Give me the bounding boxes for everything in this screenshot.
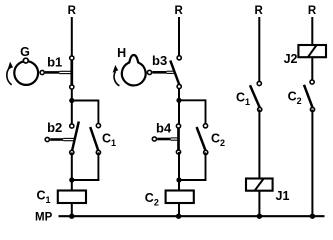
wire junction to coil C2 <box>178 152 180 191</box>
svg-text:b1: b1 <box>47 55 62 70</box>
b3 actuator linkage double line <box>167 70 175 72</box>
b4 terminal top <box>176 124 180 128</box>
wire R to brake J2 <box>311 17 313 45</box>
C2 terminal bottom (line 4) <box>310 107 314 111</box>
svg-text:b2: b2 <box>47 120 62 135</box>
b1 actuator roller <box>40 70 44 74</box>
wire C1 contact to brake J1 <box>258 110 260 179</box>
contact b2 blade (NO) <box>72 122 79 152</box>
svg-text:b3: b3 <box>152 53 167 68</box>
b4 actuator rod <box>157 138 171 141</box>
wire b1 to junction <box>71 87 73 126</box>
b1 terminal top <box>70 56 74 60</box>
junction node (loop 2 bottom) <box>176 177 181 182</box>
svg-text:R: R <box>308 5 317 17</box>
b4 actuator linkage double line <box>171 137 178 139</box>
svg-text:R: R <box>254 5 263 17</box>
cam switch H circle with lobe <box>122 55 146 85</box>
cam H rotation arrow <box>114 72 119 86</box>
contact C2 blade (NO, line 4) <box>304 85 313 108</box>
wire junction to coil C1 <box>71 152 73 190</box>
wire J1 to MP <box>258 191 260 217</box>
cam G rotation arrow <box>7 68 12 85</box>
b2 actuator linkage double line <box>63 137 75 139</box>
C1 aux terminal top <box>96 124 100 128</box>
wire loop1 bottom rail <box>72 179 100 181</box>
b3 terminal top <box>177 56 181 60</box>
b2 actuator rod <box>50 138 63 141</box>
wire loop2 right branch upper <box>205 99 207 125</box>
brake magnet J2 <box>298 45 326 57</box>
coil C1 <box>58 191 86 204</box>
wire loop2 bottom rail <box>179 179 206 181</box>
b3 actuator rod <box>152 71 166 74</box>
wire R to b3 <box>178 17 180 58</box>
b3 actuator roller <box>147 70 151 74</box>
contact b4 blade (closed) <box>177 126 180 152</box>
wire b3 to junction <box>178 87 180 127</box>
wire J2 to C2 contact <box>311 57 313 82</box>
wire coil C2 to MP <box>178 203 180 216</box>
svg-text:J1: J1 <box>276 189 290 203</box>
svg-text:b4: b4 <box>156 121 172 136</box>
b1 terminal bottom <box>70 85 74 89</box>
cam G follower small circle <box>23 58 28 63</box>
b4 actuator head circle <box>152 137 156 141</box>
b2 actuator head circle <box>45 137 49 141</box>
C2 aux terminal bottom <box>204 150 208 154</box>
C1 terminal bottom (line 3) <box>258 107 262 111</box>
svg-text:H: H <box>117 46 126 60</box>
cam switch G circle <box>14 61 38 85</box>
b1 actuator rod <box>45 71 59 74</box>
wire loop1 right branch lower <box>97 152 99 181</box>
wire coil C1 to MP <box>71 203 73 216</box>
junction node on MP (line3) <box>257 214 262 219</box>
b3 terminal bottom <box>177 84 181 88</box>
junction node (loop 2 top) <box>176 98 181 103</box>
svg-text:J2: J2 <box>284 52 298 66</box>
wire loop2 top rail <box>179 99 206 101</box>
contact C2 blade (NO, auxiliary) <box>197 127 206 151</box>
net MP bus wire <box>59 215 325 217</box>
b2 terminal bottom <box>70 150 74 154</box>
C1 terminal top (line 3) <box>257 81 261 85</box>
svg-text:R: R <box>68 5 77 17</box>
junction node on MP (line2) <box>176 214 181 219</box>
b1 actuator linkage double line <box>59 70 71 72</box>
coil C2 <box>166 191 194 204</box>
junction node on MP (line1) <box>69 214 74 219</box>
wire C2 contact to MP <box>311 110 313 217</box>
wire R to b1 <box>71 17 73 58</box>
junction node (loop 1 top) <box>69 98 74 103</box>
C1 aux terminal bottom <box>96 150 100 154</box>
brake magnet J1 <box>246 179 273 191</box>
junction node on MP (line4) <box>310 214 315 219</box>
b4 terminal bottom <box>176 150 180 154</box>
wire loop1 right branch upper <box>97 100 99 126</box>
b2 terminal top <box>70 124 74 128</box>
svg-text:MP: MP <box>35 211 53 223</box>
contact C1 blade (NO, line 3) <box>250 85 260 107</box>
wire loop1 top rail <box>72 100 99 102</box>
C2 aux terminal top <box>203 124 207 128</box>
contact C1 blade (NO, auxiliary) <box>90 127 98 151</box>
wire R to C1 contact <box>258 17 260 84</box>
svg-text:R: R <box>174 5 183 17</box>
wire loop2 right branch lower <box>205 152 207 181</box>
junction node (loop 1 bottom) <box>69 177 74 182</box>
C2 terminal top (line 4) <box>310 80 314 84</box>
svg-text:G: G <box>20 45 30 59</box>
contact b1 blade (closed) <box>70 58 73 87</box>
contact b3 blade (NO) <box>170 61 179 86</box>
